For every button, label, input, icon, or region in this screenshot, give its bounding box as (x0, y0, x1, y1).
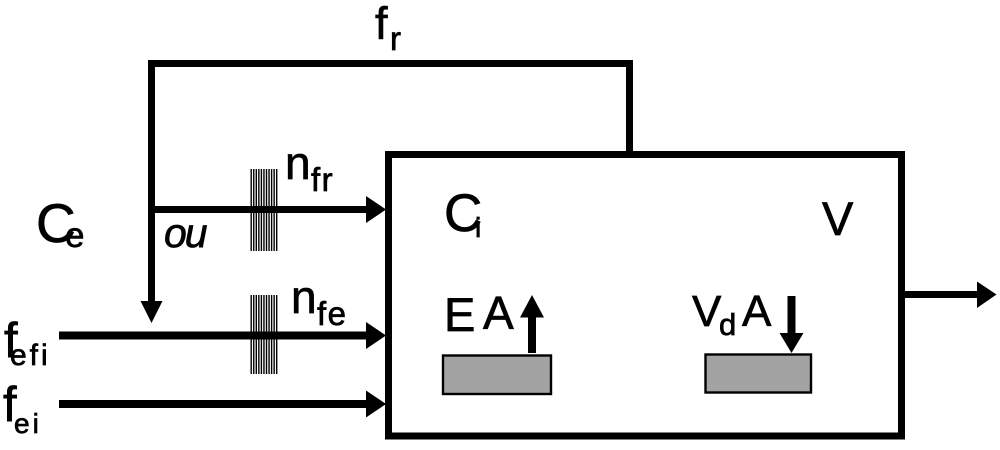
svg-text:e: e (65, 216, 84, 255)
svg-text:V: V (822, 192, 854, 245)
svg-text:A: A (742, 287, 772, 336)
svg-text:fr: fr (311, 161, 334, 198)
svg-text:r: r (390, 20, 401, 57)
svg-text:E: E (444, 288, 475, 341)
svg-text:efi: efi (10, 339, 51, 372)
svg-text:ou: ou (164, 210, 207, 256)
svg-text:ei: ei (14, 408, 42, 439)
svg-text:V: V (692, 287, 722, 336)
svg-text:i: i (475, 212, 481, 243)
svg-text:f: f (375, 0, 388, 49)
svg-text:n: n (285, 137, 311, 189)
svg-text:n: n (291, 271, 317, 323)
svg-text:fe: fe (317, 295, 348, 332)
svg-text:d: d (719, 307, 736, 342)
svg-text:A: A (483, 287, 514, 339)
